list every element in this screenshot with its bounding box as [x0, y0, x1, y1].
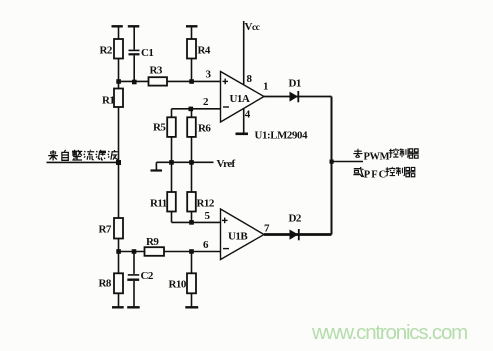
svg-text:cc: cc — [252, 23, 260, 33]
node junction bus stub — [330, 160, 334, 164]
svg-text:R4: R4 — [198, 45, 211, 57]
terminal bar bottom R10 — [185, 306, 198, 308]
svg-text:3: 3 — [206, 69, 212, 81]
node junction R12 bottom — [189, 220, 194, 225]
wire C1 column — [133, 26, 135, 50]
wire input underline — [47, 161, 119, 163]
wire left rail — [118, 26, 120, 307]
op-amp U1B — [221, 209, 265, 260]
svg-text:U1A: U1A — [230, 93, 250, 105]
svg-text:R3: R3 — [150, 65, 163, 77]
resistor R5 — [167, 117, 176, 137]
resistor R3 — [149, 77, 168, 85]
diode D1 — [290, 91, 299, 102]
svg-text:R6: R6 — [198, 123, 211, 135]
terminal bar bottom R8 — [112, 306, 124, 308]
node junction input arrow — [116, 160, 121, 165]
svg-text:6: 6 — [203, 239, 209, 251]
svg-text:U1:LM2904: U1:LM2904 — [255, 130, 309, 142]
resistor R8 — [114, 273, 123, 293]
op-amp U1A — [221, 72, 265, 123]
wire R10 column — [191, 252, 193, 308]
resistor R2 — [114, 39, 123, 59]
U1A plus input — [223, 80, 229, 82]
wire R12 column — [191, 162, 193, 222]
text input label 来自整流滤波 — [48, 150, 118, 161]
node junction R7 bottom — [116, 249, 121, 254]
U1A minus input — [223, 106, 229, 108]
svg-text:U1B: U1B — [228, 231, 248, 243]
wire pin4 ground line — [243, 108, 245, 134]
wire R11 column — [171, 162, 173, 222]
wire pin6 node R9 — [119, 251, 221, 253]
svg-text:2: 2 — [203, 96, 209, 108]
resistor R9 — [145, 247, 165, 256]
terminal bar top R4 — [186, 25, 198, 27]
wire D1 output — [264, 96, 332, 98]
svg-text:R8: R8 — [99, 278, 112, 290]
wire Vcc line — [243, 21, 245, 85]
wire R5 column — [171, 109, 173, 163]
svg-text:7: 7 — [264, 223, 270, 235]
resistor R12 — [187, 192, 196, 212]
svg-text:R2: R2 — [100, 45, 113, 57]
text output label line1 去PWM控制器 — [353, 148, 418, 162]
resistor R7 — [114, 218, 123, 239]
wire node3 horizontal — [119, 80, 221, 82]
U1B plus input — [222, 219, 228, 221]
terminal bar bottom C2 — [127, 306, 140, 308]
svg-text:Vref: Vref — [217, 158, 236, 170]
terminal bar top C1 — [128, 25, 140, 27]
svg-text:PWM: PWM — [364, 151, 390, 162]
svg-text:8: 8 — [247, 73, 253, 85]
wire R4 column — [191, 26, 193, 81]
resistor R10 — [187, 273, 196, 293]
svg-text:D1: D1 — [289, 78, 301, 90]
svg-text:R11: R11 — [150, 198, 167, 210]
node junction C1 bottom — [132, 80, 137, 85]
svg-text:4: 4 — [245, 109, 251, 121]
wire D2 output — [264, 233, 332, 236]
svg-text:R5: R5 — [153, 122, 166, 134]
svg-text:5: 5 — [205, 210, 211, 222]
svg-text:1: 1 — [263, 81, 268, 93]
wire pin5 node — [172, 221, 221, 223]
U1B minus input — [223, 248, 229, 250]
text output label line2 或PFC控制器 — [353, 167, 415, 181]
diode D2 — [290, 229, 299, 240]
svg-text:D2: D2 — [289, 213, 302, 225]
wire R6 column — [191, 109, 193, 163]
terminal bar top R2 — [112, 25, 123, 27]
resistor R1 — [114, 89, 123, 108]
wire pin2 node — [172, 108, 221, 110]
ground near Vref — [155, 162, 157, 170]
resistor R11 — [167, 192, 176, 212]
svg-text:C2: C2 — [141, 270, 154, 282]
resistor R6 — [187, 117, 196, 137]
capacitor C1 — [129, 50, 140, 54]
svg-text:R1: R1 — [102, 95, 114, 107]
svg-text:R9: R9 — [146, 236, 159, 248]
node junction C2 top — [132, 249, 137, 254]
svg-text:R10: R10 — [169, 279, 187, 291]
node junction R6 top — [189, 107, 194, 112]
node junction Vref R6 — [189, 160, 194, 165]
svg-text:www.cntronics.com: www.cntronics.com — [311, 321, 467, 344]
wire right bus — [331, 97, 333, 235]
wire Vref node — [156, 161, 213, 163]
node junction R2 bottom — [116, 79, 121, 84]
node junction R10 top — [189, 249, 194, 254]
svg-text:R7: R7 — [99, 224, 112, 236]
capacitor C2 — [127, 275, 139, 280]
svg-text:PFC: PFC — [364, 170, 387, 181]
node junction Vref R5 — [169, 160, 174, 165]
node junction R4 bottom — [189, 79, 194, 84]
wire stub to controller text — [332, 161, 364, 163]
svg-text:R12: R12 — [197, 198, 215, 210]
svg-text:C1: C1 — [141, 47, 153, 59]
resistor R4 — [187, 39, 196, 59]
wire C2 column — [133, 252, 135, 274]
